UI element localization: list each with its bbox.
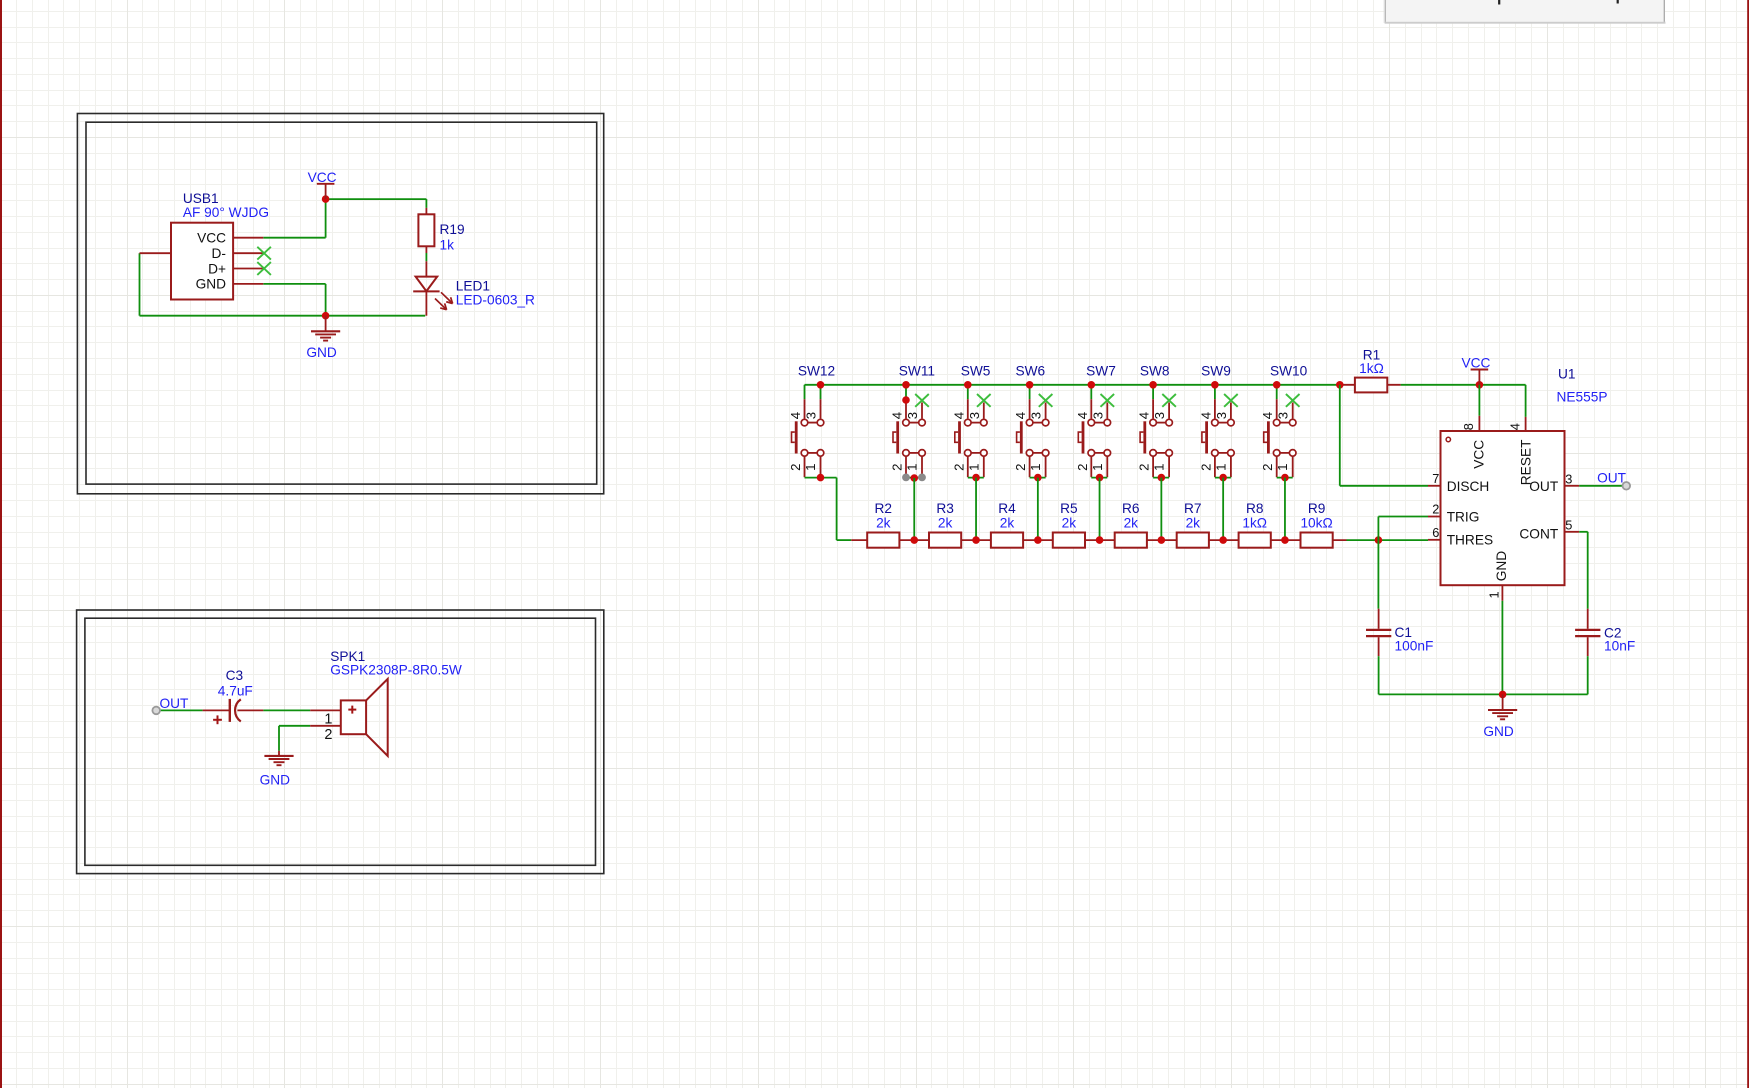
svg-text:SW11: SW11 — [899, 363, 935, 378]
svg-text:CONT: CONT — [1519, 527, 1558, 542]
svg-text:R2: R2 — [875, 501, 893, 516]
svg-text:3: 3 — [804, 412, 819, 419]
svg-text:1: 1 — [1486, 591, 1501, 598]
svg-text:SW5: SW5 — [961, 363, 991, 378]
svg-text:2: 2 — [890, 464, 905, 471]
svg-text:10kΩ: 10kΩ — [1300, 516, 1332, 531]
svg-text:1kΩ: 1kΩ — [1242, 516, 1267, 531]
svg-text:4: 4 — [951, 412, 966, 419]
svg-text:R9: R9 — [1308, 501, 1326, 516]
svg-text:SW6: SW6 — [1015, 363, 1045, 378]
svg-text:2: 2 — [1432, 502, 1439, 517]
svg-text:2: 2 — [1013, 464, 1028, 471]
svg-text:D-: D- — [212, 246, 226, 261]
svg-text:U1: U1 — [1558, 366, 1576, 381]
svg-text:2: 2 — [788, 464, 803, 471]
svg-text:2: 2 — [951, 464, 966, 471]
svg-text:7: 7 — [1432, 471, 1439, 486]
svg-text:1k: 1k — [440, 237, 455, 252]
svg-text:SW7: SW7 — [1086, 363, 1116, 378]
svg-text:2: 2 — [324, 727, 332, 743]
svg-text:2: 2 — [1198, 464, 1213, 471]
svg-text:4: 4 — [1260, 412, 1275, 419]
svg-text:10nF: 10nF — [1604, 639, 1635, 654]
svg-text:1: 1 — [803, 464, 818, 471]
svg-text:4: 4 — [1198, 412, 1213, 419]
svg-text:2k: 2k — [1124, 516, 1139, 531]
svg-text:R6: R6 — [1122, 501, 1140, 516]
svg-text:3: 3 — [1090, 412, 1105, 419]
svg-text:SW12: SW12 — [798, 363, 835, 378]
svg-text:2k: 2k — [1000, 516, 1015, 531]
svg-text:2k: 2k — [1186, 516, 1201, 531]
svg-text:LED1: LED1 — [456, 279, 490, 294]
svg-text:4.7uF: 4.7uF — [218, 684, 253, 699]
svg-text:GND: GND — [196, 277, 227, 292]
svg-text:3: 3 — [1029, 412, 1044, 419]
svg-text:VCC: VCC — [1471, 440, 1486, 469]
svg-text:GND: GND — [1483, 724, 1514, 739]
svg-text:SW9: SW9 — [1201, 363, 1231, 378]
svg-text:2: 2 — [1075, 464, 1090, 471]
svg-text:3: 3 — [905, 412, 920, 419]
svg-text:2k: 2k — [938, 516, 953, 531]
svg-text:3: 3 — [1214, 412, 1229, 419]
svg-text:TRIG: TRIG — [1447, 509, 1480, 524]
svg-text:DISCH: DISCH — [1447, 479, 1490, 494]
svg-text:OUT: OUT — [160, 696, 190, 711]
svg-text:SW10: SW10 — [1270, 363, 1308, 378]
svg-text:3: 3 — [967, 412, 982, 419]
svg-text:1: 1 — [1275, 464, 1290, 471]
svg-text:GND: GND — [260, 772, 291, 787]
svg-text:1: 1 — [1090, 464, 1105, 471]
svg-text:VCC: VCC — [1461, 356, 1490, 371]
svg-text:GSPK2308P-8R0.5W: GSPK2308P-8R0.5W — [330, 663, 462, 678]
svg-text:NE555P: NE555P — [1557, 390, 1608, 405]
svg-text:2k: 2k — [876, 516, 891, 531]
svg-text:R7: R7 — [1184, 501, 1202, 516]
svg-text:3: 3 — [1152, 412, 1167, 419]
svg-text:1: 1 — [1213, 464, 1228, 471]
svg-text:OUT: OUT — [1529, 479, 1559, 494]
svg-text:RESET: RESET — [1518, 439, 1533, 485]
svg-text:4: 4 — [890, 412, 905, 419]
svg-text:2k: 2k — [1062, 516, 1077, 531]
svg-text:D+: D+ — [208, 261, 226, 276]
svg-text:AF 90° WJDG: AF 90° WJDG — [183, 205, 269, 220]
svg-text:C1: C1 — [1395, 625, 1413, 640]
svg-text:THRES: THRES — [1447, 532, 1493, 547]
svg-text:4: 4 — [1013, 412, 1028, 419]
svg-text:R8: R8 — [1246, 501, 1264, 516]
svg-text:R19: R19 — [440, 222, 465, 237]
svg-text:1: 1 — [905, 464, 920, 471]
svg-text:1: 1 — [966, 464, 981, 471]
svg-text:1: 1 — [1152, 464, 1167, 471]
svg-text:GND: GND — [1494, 551, 1509, 582]
svg-text:6: 6 — [1432, 525, 1439, 540]
svg-text:2: 2 — [1260, 464, 1275, 471]
svg-text:OUT: OUT — [1597, 470, 1627, 485]
svg-text:SW8: SW8 — [1140, 363, 1170, 378]
svg-text:3: 3 — [1565, 471, 1572, 486]
svg-text:R4: R4 — [998, 501, 1016, 516]
svg-text:8: 8 — [1461, 423, 1476, 430]
svg-text:3: 3 — [1276, 412, 1291, 419]
svg-text:1kΩ: 1kΩ — [1359, 361, 1384, 376]
svg-text:VCC: VCC — [197, 231, 226, 246]
svg-text:2: 2 — [1137, 464, 1152, 471]
svg-text:GND: GND — [306, 345, 337, 360]
svg-text:C3: C3 — [226, 668, 244, 683]
svg-text:4: 4 — [1075, 412, 1090, 419]
svg-text:1: 1 — [324, 712, 332, 728]
svg-text:R5: R5 — [1060, 501, 1078, 516]
svg-text:LED-0603_R: LED-0603_R — [456, 292, 535, 307]
svg-text:4: 4 — [788, 412, 803, 419]
svg-text:4: 4 — [1137, 412, 1152, 419]
svg-text:VCC: VCC — [308, 170, 337, 185]
svg-text:1: 1 — [1028, 464, 1043, 471]
svg-text:5: 5 — [1565, 517, 1572, 532]
svg-text:R3: R3 — [936, 501, 954, 516]
svg-text:100nF: 100nF — [1395, 639, 1434, 654]
svg-text:4: 4 — [1508, 423, 1523, 430]
